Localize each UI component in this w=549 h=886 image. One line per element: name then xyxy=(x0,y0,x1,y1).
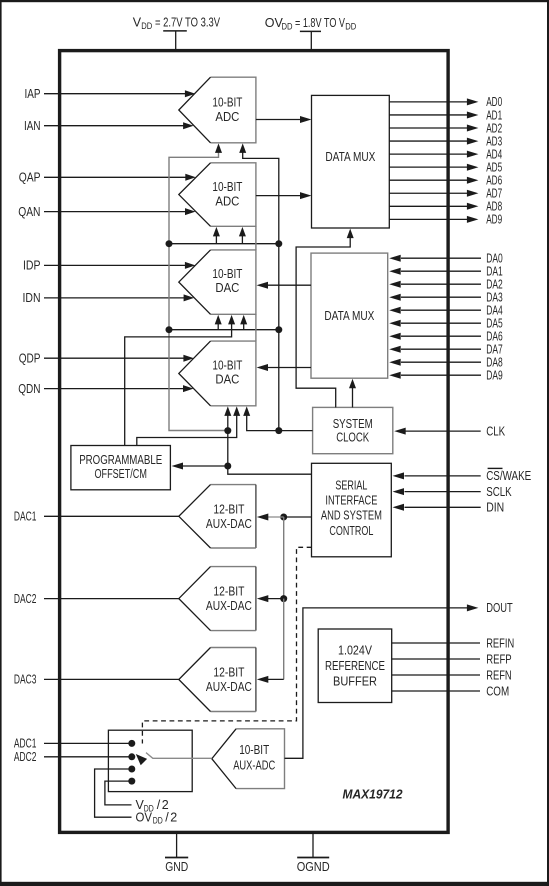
svg-text:DAC: DAC xyxy=(215,373,239,387)
svg-text:QDN: QDN xyxy=(18,382,40,396)
wire DAC1 xyxy=(44,515,179,517)
svg-text:/: / xyxy=(157,798,161,812)
svg-text:QDP: QDP xyxy=(19,352,41,366)
svg-text:REFIN: REFIN xyxy=(486,636,514,650)
svg-text:INTERFACE: INTERFACE xyxy=(325,493,377,507)
wire COM xyxy=(392,690,480,692)
svg-text:DD: DD xyxy=(141,21,152,31)
wire QD DAC clk A stub xyxy=(227,425,229,431)
underline 1.8V xyxy=(300,30,321,32)
svg-text:SYSTEM: SYSTEM xyxy=(333,417,373,431)
svg-text:DAC: DAC xyxy=(215,281,239,295)
svg-text:AD2: AD2 xyxy=(486,121,502,135)
svg-text:DA5: DA5 xyxy=(486,317,503,331)
svg-text:REFP: REFP xyxy=(486,652,512,666)
wire CS/WAKE xyxy=(405,475,481,477)
wire AD8 xyxy=(389,205,468,207)
svg-text:IAP: IAP xyxy=(25,87,41,101)
svg-text:/: / xyxy=(165,811,169,825)
svg-text:12-BIT: 12-BIT xyxy=(213,503,244,517)
wire to AUX-DAC3 xyxy=(267,678,284,680)
svg-text:DATA MUX: DATA MUX xyxy=(324,309,375,323)
svg-text:DA0: DA0 xyxy=(486,252,503,266)
svg-text:AUX-DAC: AUX-DAC xyxy=(206,599,252,613)
arrow into ADC1 clk A xyxy=(215,143,222,153)
ground GND xyxy=(176,832,178,857)
wire REFP xyxy=(392,658,480,660)
DAC block U7 12-BIT AUX-DAC 3 xyxy=(211,647,256,649)
wire AD1 xyxy=(389,114,468,116)
wire DA4 xyxy=(401,309,481,311)
wire serial control to OFFSET/CM box xyxy=(182,465,228,467)
svg-text:DD: DD xyxy=(153,816,163,826)
svg-text:AUX-DAC: AUX-DAC xyxy=(206,680,252,694)
arrow into ADC1 clk B xyxy=(239,143,246,153)
wire SCLK xyxy=(405,491,481,493)
svg-text:QAN: QAN xyxy=(18,205,40,219)
wire aux bus segment 1 xyxy=(283,517,285,599)
dashed wire serial control to input mux xyxy=(142,547,311,743)
svg-text:QAP: QAP xyxy=(19,171,41,185)
wire DIN xyxy=(405,506,481,508)
wire CLK xyxy=(406,430,481,432)
svg-text:REFERENCE: REFERENCE xyxy=(325,659,385,673)
junction xyxy=(275,326,282,333)
svg-text:AD1: AD1 xyxy=(486,108,502,122)
svg-text:COM: COM xyxy=(486,684,509,698)
box U12 SERIAL INTERFACE AND SYSTEM CONTROL xyxy=(312,463,392,557)
svg-text:AD5: AD5 xyxy=(486,160,502,174)
wire QDN xyxy=(44,388,184,390)
svg-text:IAN: IAN xyxy=(24,119,41,133)
svg-text:DA8: DA8 xyxy=(486,356,503,370)
box U11 SYSTEM CLOCK xyxy=(313,407,393,453)
wire DA5 xyxy=(401,322,481,324)
svg-text:AD7: AD7 xyxy=(486,187,502,201)
svg-text:AD3: AD3 xyxy=(486,134,502,148)
gray verticals linking pentagon right edges xyxy=(255,226,257,250)
wire to AUX-DAC2 xyxy=(267,598,284,600)
svg-text:DAC2: DAC2 xyxy=(14,592,37,606)
svg-text:2: 2 xyxy=(170,811,177,825)
svg-text:10-BIT: 10-BIT xyxy=(212,96,242,110)
wire ADC2 clk A xyxy=(215,234,217,244)
svg-text:= 1.8V TO V: = 1.8V TO V xyxy=(295,16,345,30)
wire clock loop (gray) from junction up left side to ADC1 xyxy=(169,150,228,431)
wire ADC1 xyxy=(44,742,132,744)
wire OVDD stub into box xyxy=(310,32,312,49)
arrow mux control xyxy=(136,754,147,765)
svg-text:ADC: ADC xyxy=(215,194,239,208)
box U10 DATA MUX (receive) xyxy=(311,253,388,378)
svg-text:DA6: DA6 xyxy=(486,330,503,344)
wire REFN xyxy=(392,674,480,676)
underline 2.7V xyxy=(163,30,187,32)
wire DA3 xyxy=(401,296,481,298)
wire AD9 xyxy=(389,218,468,220)
DAC block U5 12-BIT AUX-DAC 1 xyxy=(211,484,256,486)
svg-text:CLOCK: CLOCK xyxy=(336,430,369,444)
wire AD5 xyxy=(389,166,468,168)
wire junction down to serial interface xyxy=(228,431,312,475)
main chip boundary box xyxy=(60,51,449,833)
wire ADC2 xyxy=(44,756,132,758)
svg-text:DD: DD xyxy=(345,22,356,32)
wire DA1 xyxy=(401,270,481,272)
overline over CS xyxy=(488,467,503,469)
svg-text:ADC1: ADC1 xyxy=(14,737,37,751)
ADC block U1 10-BIT ADC (IA) xyxy=(211,77,256,143)
ADC block U8 10-BIT AUX-ADC xyxy=(236,729,284,789)
wire AD3 xyxy=(389,140,468,142)
wire aux bus segment 2 xyxy=(283,599,285,680)
svg-text:DD: DD xyxy=(282,22,293,32)
junction xyxy=(275,240,282,247)
wire to AUX-DAC1 xyxy=(267,516,284,518)
svg-text:AND SYSTEM: AND SYSTEM xyxy=(321,509,382,523)
svg-text:AD0: AD0 xyxy=(486,95,502,109)
svg-text:DIN: DIN xyxy=(486,501,504,515)
svg-text:DATA MUX: DATA MUX xyxy=(325,150,376,164)
wire IDP xyxy=(44,264,186,266)
svg-text:DA1: DA1 xyxy=(486,265,503,279)
svg-text:1.024V: 1.024V xyxy=(338,643,373,657)
svg-text:10-BIT: 10-BIT xyxy=(239,743,269,757)
svg-text:AD4: AD4 xyxy=(486,147,502,161)
svg-text:PROGRAMMABLE: PROGRAMMABLE xyxy=(79,453,162,467)
svg-text:DAC1: DAC1 xyxy=(14,510,37,524)
wire ADC IA out to DATA MUX xyxy=(256,119,303,121)
wire clock rung to ADC2 xyxy=(169,243,279,245)
svg-text:DA9: DA9 xyxy=(486,369,503,383)
wire AD7 xyxy=(389,192,468,194)
wire DA8 xyxy=(401,361,481,363)
svg-text:CONTROL: CONTROL xyxy=(329,524,373,538)
box U15 aux-adc input mux xyxy=(108,730,192,791)
wire mux wiper arm xyxy=(146,753,212,759)
junction clock/rail xyxy=(275,427,282,434)
svg-text:IDN: IDN xyxy=(23,291,41,305)
svg-text:DAC3: DAC3 xyxy=(14,673,37,687)
wire QAN xyxy=(44,211,186,213)
svg-text:= 2.7V TO 3.3V: = 2.7V TO 3.3V xyxy=(155,15,220,29)
wire QDP xyxy=(44,357,184,359)
wire OVDD/2 to mux xyxy=(95,769,132,817)
DAC block U6 12-BIT AUX-DAC 2 xyxy=(211,566,256,568)
wire DATA MUX rx to ID DAC xyxy=(266,284,311,286)
svg-text:12-BIT: 12-BIT xyxy=(213,666,244,680)
wire AD6 xyxy=(389,179,468,181)
svg-text:AD6: AD6 xyxy=(486,174,502,188)
svg-text:10-BIT: 10-BIT xyxy=(212,267,242,281)
wire VDD/2 to mux xyxy=(105,781,132,805)
junction xyxy=(280,595,287,602)
svg-text:ADC: ADC xyxy=(215,110,239,124)
svg-text:DOUT: DOUT xyxy=(486,601,513,615)
wire VDD stub into box xyxy=(175,32,177,50)
svg-text:10-BIT: 10-BIT xyxy=(212,180,242,194)
wire IDN xyxy=(44,297,185,299)
box U9 DATA MUX (transmit) xyxy=(312,95,390,228)
svg-text:AD9: AD9 xyxy=(486,213,502,227)
wire AD2 xyxy=(389,127,468,129)
DAC block U3 10-BIT DAC (ID) xyxy=(211,250,256,314)
wire OFFSET/CM to ID DAC xyxy=(125,322,232,446)
wire DAC3 xyxy=(44,678,179,680)
svg-text:DA3: DA3 xyxy=(486,291,503,305)
wire REFIN xyxy=(392,642,480,644)
box U14 1.024V REFERENCE BUFFER xyxy=(318,629,392,703)
wire clock to DATA MUX (rx) xyxy=(352,385,354,407)
wire serial interface to AUX-DAC bus xyxy=(284,516,312,518)
wire IAN xyxy=(44,125,184,127)
mux input node ADC1 xyxy=(128,740,135,747)
svg-text:BUFFER: BUFFER xyxy=(333,675,377,689)
wire DA9 xyxy=(401,374,481,376)
svg-text:ADC2: ADC2 xyxy=(14,750,37,764)
svg-text:SERIAL: SERIAL xyxy=(335,479,367,493)
junction xyxy=(166,326,173,333)
junction xyxy=(280,514,287,521)
svg-text:OFFSET/CM: OFFSET/CM xyxy=(95,467,147,481)
wire system clock output to QD DAC xyxy=(247,413,313,431)
svg-text:GND: GND xyxy=(165,860,188,874)
svg-text:AUX-ADC: AUX-ADC xyxy=(233,759,275,773)
svg-text:10-BIT: 10-BIT xyxy=(212,358,242,372)
wire DA0 xyxy=(401,257,481,259)
wire DOUT from AUX-ADC output xyxy=(285,608,469,758)
wire AD4 xyxy=(389,153,468,155)
DAC block U4 10-BIT DAC (QD) xyxy=(211,341,256,406)
wire DA2 xyxy=(401,283,481,285)
svg-text:OGND: OGND xyxy=(297,860,330,874)
junction xyxy=(224,463,231,470)
svg-text:DA4: DA4 xyxy=(486,304,503,318)
wire DA7 xyxy=(401,348,481,350)
svg-text:DA2: DA2 xyxy=(486,278,503,292)
wire ADC QA out to DATA MUX xyxy=(256,195,303,197)
wire ADC2 clk B xyxy=(241,234,243,244)
wire QAP xyxy=(44,176,186,178)
svg-text:MAX19712: MAX19712 xyxy=(343,788,403,802)
wire clock rail (right) to ADC1 xyxy=(243,150,279,431)
svg-text:SCLK: SCLK xyxy=(486,485,512,499)
wire clock to DATA MUX (tx) xyxy=(296,235,350,408)
wire IAP xyxy=(44,93,186,95)
svg-text:CS/WAKE: CS/WAKE xyxy=(486,469,531,483)
junction xyxy=(166,240,173,247)
svg-text:AD8: AD8 xyxy=(486,200,502,214)
wire DAC2 xyxy=(44,598,179,600)
svg-text:OV: OV xyxy=(136,811,153,825)
mux input node VDD/2 xyxy=(128,766,135,773)
svg-text:REFN: REFN xyxy=(486,668,512,682)
junction clock/gray loop xyxy=(224,427,231,434)
box U13 PROGRAMMABLE OFFSET/CM xyxy=(71,446,170,490)
wire DAC ID clk B xyxy=(243,322,245,330)
svg-text:12-BIT: 12-BIT xyxy=(213,585,244,599)
mux input node OVDD/2 xyxy=(128,778,135,785)
ADC block U2 10-BIT ADC (QA) xyxy=(211,163,256,227)
wire AD0 xyxy=(389,101,468,103)
svg-text:IDP: IDP xyxy=(23,259,41,273)
ground OGND xyxy=(312,832,314,857)
wire OFFSET/CM to QD DAC xyxy=(137,413,237,446)
wire DAC ID clk A xyxy=(217,322,219,330)
svg-text:CLK: CLK xyxy=(486,424,506,438)
wire clock rung to DAC ID xyxy=(169,329,279,331)
wire DA6 xyxy=(401,335,481,337)
mux input node ADC2 xyxy=(128,753,135,760)
svg-text:DA7: DA7 xyxy=(486,343,503,357)
wire DATA MUX rx to QD DAC xyxy=(266,367,311,369)
svg-text:AUX-DAC: AUX-DAC xyxy=(206,517,252,531)
